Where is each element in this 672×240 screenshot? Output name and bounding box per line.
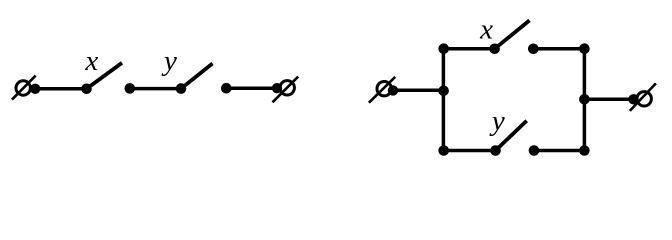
svg-text:y: y <box>489 105 505 137</box>
node dot C (T3 connection) <box>388 85 398 95</box>
wire bottom rail to switch y pivot <box>444 149 496 153</box>
wire right rail to terminal T4 <box>584 98 633 102</box>
switch y blade <box>181 64 213 89</box>
switch y pivot dot (parallel) <box>490 145 501 156</box>
svg-text:x: x <box>84 45 98 77</box>
wire switch x to top-right corner <box>533 47 584 51</box>
switch x blade <box>87 63 123 89</box>
corner dot bottom-left <box>438 145 449 156</box>
terminal T4 (right terminal, parallel circuit: circle with slash) <box>630 83 656 111</box>
wire T1 to switch x pivot <box>35 87 86 91</box>
node dot D (T4 connection) <box>628 94 638 104</box>
node dot A (T1 connection) <box>30 84 40 94</box>
switch y contact dot (parallel) <box>529 145 540 156</box>
wire switch x to switch y <box>130 87 181 91</box>
switch x contact dot <box>125 83 136 94</box>
junction dot left rail <box>438 86 449 97</box>
switch y blade (parallel) <box>496 121 527 151</box>
wire switch y to bottom-right corner <box>534 149 584 153</box>
svg-text:x: x <box>479 14 493 46</box>
switch x pivot dot (parallel) <box>489 44 500 55</box>
wire right rail (vertical) <box>583 49 587 151</box>
wire left rail (vertical) <box>442 49 446 151</box>
wire switch y to terminal T2 <box>226 86 277 90</box>
node dot B (T2 connection) <box>272 83 282 93</box>
corner dot bottom-right <box>579 145 590 156</box>
switch x contact dot (parallel) <box>528 44 539 55</box>
corner dot top-left <box>438 43 449 54</box>
junction dot right rail <box>579 94 590 105</box>
terminal T2 (right terminal, series circuit: circle with slash) <box>273 77 299 103</box>
terminal T3 (left terminal, parallel circuit: circle with slash) <box>369 77 395 103</box>
switch y contact dot <box>221 83 232 94</box>
terminal T1 (left terminal, series circuit: circle with slash) <box>12 76 36 100</box>
corner dot top-right <box>579 43 590 54</box>
wire top rail to switch x pivot <box>444 47 495 51</box>
switch x blade (parallel) <box>495 20 530 48</box>
wire T3 to left rail <box>393 89 443 93</box>
switch x pivot dot <box>81 84 92 95</box>
svg-text:y: y <box>161 45 177 77</box>
switch y pivot dot <box>176 83 187 94</box>
